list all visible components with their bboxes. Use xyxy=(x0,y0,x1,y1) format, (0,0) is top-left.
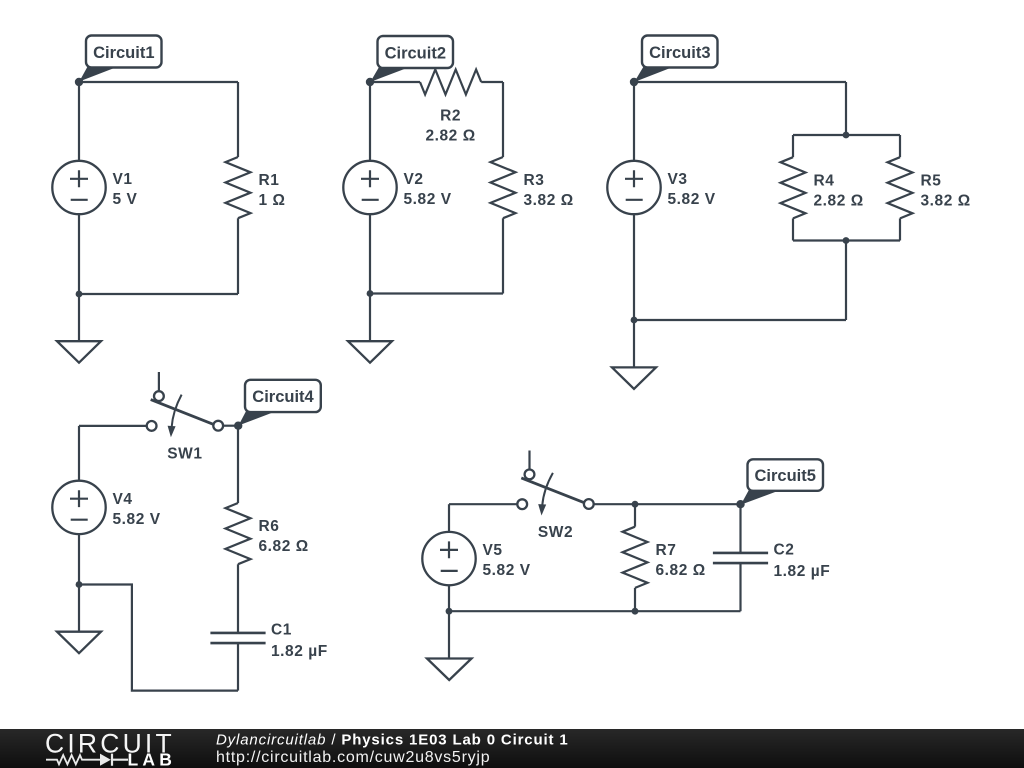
logo resistor squiggle xyxy=(46,755,100,764)
svg-text:Circuit5: Circuit5 xyxy=(754,467,815,485)
wire left lower Circuit5 xyxy=(448,585,450,611)
wire parallel bottom bar Circuit3 xyxy=(793,239,900,241)
svg-text:2.82 Ω: 2.82 Ω xyxy=(814,192,864,209)
capacitor C2 xyxy=(713,553,768,563)
ground Circuit2 xyxy=(348,341,392,363)
wire right upper Circuit2 xyxy=(502,82,504,157)
wire R4 upper stub xyxy=(792,135,794,157)
label V3 5.82 V xyxy=(668,171,716,208)
svg-text:R4: R4 xyxy=(814,172,835,189)
label V1 5 V xyxy=(113,171,138,208)
svg-text:R3: R3 xyxy=(524,172,545,189)
wire top Circuit1 xyxy=(79,81,238,83)
label V5 5.82 V xyxy=(483,542,531,579)
label R2 2.82 Ohm xyxy=(425,108,475,145)
label R6 6.82 Ohm xyxy=(259,518,309,555)
svg-text:6.82 Ω: 6.82 Ω xyxy=(259,538,309,555)
label callout Circuit2 xyxy=(370,36,453,82)
ground Circuit4 xyxy=(57,632,101,654)
resistor R5 xyxy=(888,157,913,218)
svg-text:Circuit2: Circuit2 xyxy=(385,44,446,62)
node dot top-left Circuit3 xyxy=(630,78,638,86)
voltage source V3 xyxy=(607,161,660,214)
svg-text:1 Ω: 1 Ω xyxy=(259,192,286,209)
label R1 1 Ohm xyxy=(259,172,286,209)
wire feed down Circuit3 xyxy=(845,82,847,135)
svg-text:5.82 V: 5.82 V xyxy=(404,191,452,208)
wire to ground Circuit4 xyxy=(78,585,80,632)
svg-text:1.82 µF: 1.82 µF xyxy=(271,643,328,660)
wire bottom jog Circuit4 xyxy=(79,585,238,691)
label C2 1.82 uF xyxy=(774,542,831,581)
svg-text:R6: R6 xyxy=(259,518,280,535)
node dot top-left Circuit2 xyxy=(366,78,374,86)
wire R4 lower stub xyxy=(792,218,794,240)
ground Circuit1 xyxy=(57,341,101,363)
ground Circuit5 xyxy=(427,659,472,681)
node dot bottom-left Circuit3 xyxy=(631,317,638,324)
node dot bottom-left Circuit2 xyxy=(367,290,374,297)
svg-text:R7: R7 xyxy=(656,542,677,559)
svg-text:SW1: SW1 xyxy=(167,446,202,463)
svg-text:R2: R2 xyxy=(440,108,461,125)
wire bottom Circuit2 xyxy=(370,292,503,294)
wire right lower Circuit1 xyxy=(237,218,239,294)
BOTTOM-BAR xyxy=(0,729,1024,768)
wire right upper Circuit1 xyxy=(237,82,239,157)
node dot top-right Circuit5 xyxy=(736,500,744,508)
junction dot R7 bottom Circuit5 xyxy=(632,608,639,615)
wire down from parallel Circuit3 xyxy=(845,241,847,321)
logo diode xyxy=(100,754,111,766)
ground Circuit3 xyxy=(612,367,656,389)
svg-text:V3: V3 xyxy=(668,171,688,188)
svg-text:6.82 Ω: 6.82 Ω xyxy=(656,562,706,579)
voltage source V5 xyxy=(422,532,475,585)
resistor R2 xyxy=(420,70,481,95)
resistor R7 xyxy=(623,527,648,588)
label callout Circuit4 xyxy=(239,380,321,426)
label R7 6.82 Ohm xyxy=(656,542,706,579)
wire top Circuit3 xyxy=(634,81,846,83)
svg-text:C1: C1 xyxy=(271,621,292,638)
node dot bottom-left Circuit5 xyxy=(446,608,453,615)
voltage source V1 xyxy=(52,161,105,214)
svg-text:V2: V2 xyxy=(404,171,424,188)
junction dot R7 top Circuit5 xyxy=(632,501,639,508)
node dot bottom-left Circuit1 xyxy=(76,291,83,298)
svg-text:Circuit1: Circuit1 xyxy=(93,44,154,62)
junction dot parallel top Circuit3 xyxy=(843,132,850,139)
wire left lower Circuit4 xyxy=(78,534,80,584)
svg-text:1.82 µF: 1.82 µF xyxy=(774,563,831,580)
svg-text:2.82 Ω: 2.82 Ω xyxy=(425,128,475,145)
wire left lower Circuit1 xyxy=(78,214,80,294)
wire switch to node Circuit5 xyxy=(594,503,741,505)
svg-text:5.82 V: 5.82 V xyxy=(483,562,531,579)
voltage source V2 xyxy=(343,161,396,214)
wire C2 to bottom Circuit5 xyxy=(739,563,741,611)
label V2 5.82 V xyxy=(404,171,452,208)
svg-text:3.82 Ω: 3.82 Ω xyxy=(524,192,574,209)
wire left lower Circuit3 xyxy=(633,214,635,320)
node dot top-left Circuit1 xyxy=(75,78,83,86)
label callout Circuit5 xyxy=(741,459,823,505)
svg-text:V5: V5 xyxy=(483,542,503,559)
svg-text:Dylancircuitlab / Physics 1E03: Dylancircuitlab / Physics 1E03 Lab 0 Cir… xyxy=(216,731,569,748)
wire to ground Circuit1 xyxy=(78,294,80,341)
wire switch to left Circuit4 xyxy=(79,425,147,427)
svg-text:SW2: SW2 xyxy=(538,524,573,541)
svg-text:R5: R5 xyxy=(921,172,942,189)
label R5 3.82 Ohm xyxy=(921,172,971,209)
wire parallel top bar Circuit3 xyxy=(793,134,900,136)
svg-text:5.82 V: 5.82 V xyxy=(668,191,716,208)
wire left lower Circuit2 xyxy=(369,214,371,293)
svg-text:R1: R1 xyxy=(259,172,280,189)
wire left upper Circuit3 xyxy=(633,82,635,161)
wire left upper Circuit4 xyxy=(78,426,80,481)
svg-text:LAB: LAB xyxy=(128,750,177,768)
wire top-left Circuit2 xyxy=(370,81,420,83)
svg-text:5 V: 5 V xyxy=(113,191,138,208)
label R3 3.82 Ohm xyxy=(524,172,574,209)
wire bottom Circuit3 xyxy=(634,319,846,321)
junction dot parallel bottom Circuit3 xyxy=(843,237,850,244)
wire to ground Circuit5 xyxy=(448,611,450,658)
svg-text:Circuit4: Circuit4 xyxy=(252,388,314,406)
resistor R6 xyxy=(226,503,251,564)
switch SW2 xyxy=(517,451,593,516)
wire node to C2 xyxy=(739,504,741,553)
wire to ground Circuit3 xyxy=(633,320,635,367)
resistor R1 xyxy=(226,157,251,218)
label callout Circuit3 xyxy=(634,36,717,83)
label C1 1.82 uF xyxy=(271,621,328,660)
wire left upper Circuit2 xyxy=(369,82,371,161)
svg-text:Circuit3: Circuit3 xyxy=(649,44,710,62)
svg-text:C2: C2 xyxy=(774,542,795,559)
wire switch to left Circuit5 xyxy=(449,503,517,505)
wire R7 to bottom Circuit5 xyxy=(634,588,636,611)
node dot bottom-left Circuit4 xyxy=(76,581,83,588)
resistor R3 xyxy=(491,157,516,218)
svg-text:5.82 V: 5.82 V xyxy=(113,511,161,528)
svg-text:3.82 Ω: 3.82 Ω xyxy=(921,192,971,209)
switch SW1 xyxy=(147,372,223,437)
label V4 5.82 V xyxy=(113,491,161,528)
wire node to R6 xyxy=(237,426,239,503)
wire bottom Circuit1 xyxy=(79,293,238,295)
wire R5 upper stub xyxy=(899,135,901,157)
resistor R4 xyxy=(781,157,806,218)
wire node to R7 xyxy=(634,504,636,527)
wire R6 to C1 xyxy=(237,564,239,633)
svg-text:V4: V4 xyxy=(113,491,133,508)
label callout Circuit1 xyxy=(79,36,161,82)
wire right lower Circuit2 xyxy=(502,218,504,293)
node dot top-right Circuit4 xyxy=(234,422,242,430)
wire left upper Circuit5 xyxy=(448,504,450,532)
svg-text:http://circuitlab.com/cuw2u8vs: http://circuitlab.com/cuw2u8vs5ryjp xyxy=(216,749,490,766)
wire bottom Circuit5 xyxy=(449,610,741,612)
wire to ground Circuit2 xyxy=(369,294,371,342)
capacitor C1 xyxy=(210,633,265,643)
svg-text:V1: V1 xyxy=(113,171,133,188)
wire R5 lower stub xyxy=(899,218,901,240)
wire left upper Circuit1 xyxy=(78,82,80,161)
wire top-right Circuit2 xyxy=(481,81,503,83)
voltage source V4 xyxy=(52,481,105,534)
wire switch to node Circuit4 xyxy=(223,425,238,427)
wire C1 to bottom Circuit4 xyxy=(237,643,239,690)
label R4 2.82 Ohm xyxy=(814,172,864,209)
